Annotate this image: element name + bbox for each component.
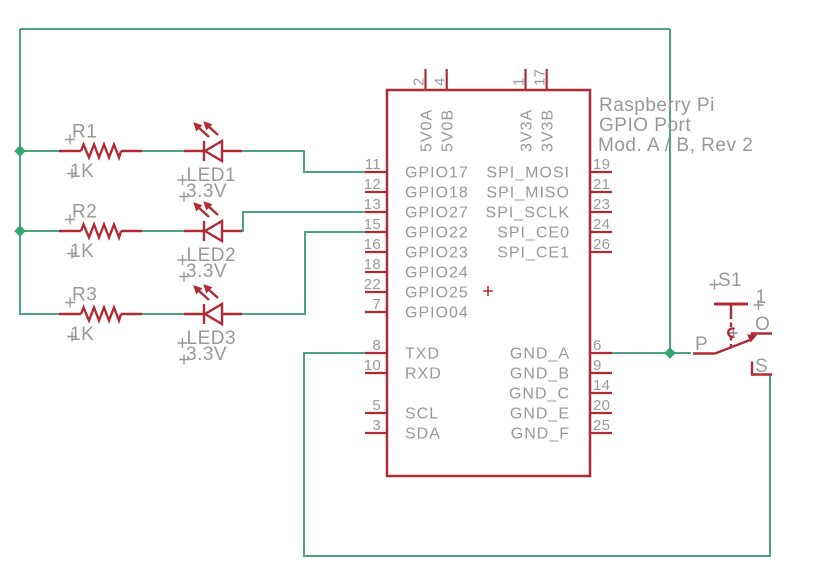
- svg-text:3V3B: 3V3B: [540, 109, 557, 152]
- svg-text:GPIO04: GPIO04: [405, 305, 469, 322]
- resistor R1 (1K): [59, 145, 142, 158]
- svg-text:R2: R2: [72, 202, 97, 223]
- op-amp-style IC U1: Raspberry Pi GPIO Port box: [387, 90, 590, 476]
- svg-text:13: 13: [364, 196, 381, 213]
- resistor R3 (1K): [59, 308, 142, 321]
- svg-text:R3: R3: [72, 285, 97, 306]
- pin 4 5V0B (top): [432, 69, 457, 152]
- pin 2 5V0A (top): [411, 69, 436, 152]
- IC origin cross: [483, 286, 493, 296]
- switch S1 (pushbutton): [693, 304, 772, 375]
- svg-text:GPIO27: GPIO27: [405, 205, 469, 222]
- svg-text:25: 25: [593, 417, 610, 434]
- svg-text:24: 24: [593, 216, 610, 233]
- svg-text:SPI_MISO: SPI_MISO: [486, 185, 570, 202]
- svg-text:8: 8: [372, 337, 381, 354]
- pin 6 GND_A (right): [510, 337, 612, 363]
- svg-text:16: 16: [364, 236, 381, 253]
- wire: GND_A pin 6 to switch P: [612, 352, 691, 354]
- value 1K of R3: [67, 324, 94, 345]
- pin 22 GPIO25 (left): [364, 276, 469, 302]
- pin 3 SDA (left): [365, 417, 441, 443]
- svg-text:4: 4: [432, 77, 449, 86]
- pin 26 SPI_CE1 (right): [497, 236, 612, 262]
- S1 pin P: [693, 352, 715, 354]
- wire: left rail to R2: [19, 230, 60, 232]
- LED LED2 (3.3V): [184, 202, 242, 241]
- svg-text:GND_B: GND_B: [510, 366, 570, 383]
- wire: right vertical drop to switch P net: [669, 29, 671, 353]
- S1 pin O: [752, 334, 772, 340]
- pin 23 SPI_SCLK (right): [486, 196, 612, 222]
- pin 10 RXD (left): [364, 357, 442, 383]
- svg-text:SCL: SCL: [405, 406, 439, 423]
- wire: R3 to LED3: [141, 313, 185, 315]
- svg-text:O: O: [755, 314, 770, 335]
- svg-text:3.3V: 3.3V: [186, 261, 227, 282]
- svg-text:SPI_CE0: SPI_CE0: [497, 225, 570, 242]
- svg-text:SDA: SDA: [405, 426, 441, 443]
- svg-text:SPI_CE1: SPI_CE1: [497, 245, 570, 262]
- svg-text:19: 19: [593, 156, 610, 173]
- S1 pin label 1: [754, 287, 767, 310]
- pin 1 3V3A (top): [511, 69, 536, 152]
- value 3.3V of LED1: [179, 181, 227, 202]
- svg-text:1K: 1K: [70, 161, 94, 182]
- junction: pin6 / switch node: [664, 347, 676, 359]
- S1 pin S: [752, 362, 772, 375]
- svg-text:GND_F: GND_F: [511, 426, 570, 443]
- label R3: [65, 285, 97, 308]
- pin 9 GND_B (right): [510, 357, 612, 383]
- svg-text:GPIO22: GPIO22: [405, 225, 469, 242]
- value 1K of R2: [67, 241, 94, 262]
- pin 11 GPIO17 (left): [365, 156, 469, 182]
- value 3.3V of LED2: [179, 261, 227, 282]
- label R2: [65, 202, 97, 225]
- wire: left rail to R1: [19, 150, 60, 152]
- wire: LED3 to pin 15 (GPIO22): [241, 232, 366, 314]
- pin 5 SCL (left): [365, 397, 439, 423]
- wire: LED2 to pin 13 (GPIO27): [241, 212, 366, 231]
- svg-text:23: 23: [593, 196, 610, 213]
- svg-text:18: 18: [364, 256, 381, 273]
- pin 14 GND_C (right): [509, 377, 612, 403]
- svg-text:3V3A: 3V3A: [519, 109, 536, 152]
- svg-text:12: 12: [364, 176, 381, 193]
- wire: TXD pin 8 down around bottom to switch S pin: [304, 353, 770, 556]
- pin 15 GPIO22 (left): [364, 216, 469, 242]
- svg-text:GND_A: GND_A: [510, 346, 570, 363]
- LED LED3 (3.3V): [184, 285, 242, 324]
- wire: left rail to R3: [19, 313, 60, 315]
- svg-text:10: 10: [364, 357, 381, 374]
- svg-text:9: 9: [593, 357, 602, 374]
- svg-text:26: 26: [593, 236, 610, 253]
- IC title text: [598, 95, 753, 156]
- svg-text:7: 7: [372, 296, 381, 313]
- svg-text:6: 6: [593, 337, 602, 354]
- svg-text:11: 11: [365, 156, 381, 173]
- pin 18 GPIO24 (left): [364, 256, 469, 282]
- pin 17 3V3B (top): [532, 69, 557, 152]
- svg-text:GPIO Port: GPIO Port: [599, 115, 691, 136]
- svg-text:1K: 1K: [70, 241, 94, 262]
- pin 8 TXD (left): [365, 337, 440, 363]
- svg-text:RXD: RXD: [405, 366, 442, 383]
- wire: R1 to LED1: [141, 150, 185, 152]
- S1 actuator button: [714, 303, 748, 306]
- svg-text:21: 21: [593, 176, 610, 193]
- svg-text:SPI_MOSI: SPI_MOSI: [486, 165, 570, 182]
- svg-text:3.3V: 3.3V: [186, 344, 227, 365]
- pin 21 SPI_MISO (right): [486, 176, 612, 202]
- svg-text:GPIO25: GPIO25: [405, 285, 469, 302]
- pin 20 GND_E (right): [510, 397, 612, 423]
- wire: left vertical rail: [19, 29, 21, 314]
- svg-text:15: 15: [364, 216, 381, 233]
- svg-text:3: 3: [372, 417, 381, 434]
- svg-text:1K: 1K: [70, 324, 94, 345]
- svg-text:2: 2: [411, 77, 428, 86]
- svg-text:GPIO23: GPIO23: [405, 245, 469, 262]
- svg-text:GPIO24: GPIO24: [405, 265, 469, 282]
- svg-text:GPIO18: GPIO18: [405, 185, 469, 202]
- pin 7 GPIO04 (left): [365, 296, 469, 322]
- wire: R2 to LED2: [141, 230, 185, 232]
- pin 12 GPIO18 (left): [364, 176, 469, 202]
- junction: left rail / R1 node: [14, 145, 26, 157]
- label R1: [65, 122, 97, 145]
- svg-text:TXD: TXD: [405, 346, 440, 363]
- pin 13 GPIO27 (left): [364, 196, 469, 222]
- svg-text:3.3V: 3.3V: [186, 181, 227, 202]
- svg-text:5V0B: 5V0B: [440, 109, 457, 152]
- svg-text:1: 1: [511, 77, 528, 86]
- svg-text:GPIO17: GPIO17: [405, 165, 469, 182]
- junction: left rail / R2 node: [14, 225, 26, 237]
- svg-text:5V0A: 5V0A: [419, 109, 436, 152]
- value 3.3V of LED3: [179, 344, 227, 365]
- svg-text:Raspberry Pi: Raspberry Pi: [599, 95, 715, 116]
- svg-text:20: 20: [593, 397, 610, 414]
- label LED2: [178, 245, 237, 266]
- svg-text:22: 22: [364, 276, 381, 293]
- LED LED1 (3.3V): [184, 122, 242, 161]
- svg-text:GND_E: GND_E: [510, 406, 570, 423]
- pin 19 SPI_MOSI (right): [486, 156, 612, 182]
- svg-text:R1: R1: [72, 122, 97, 143]
- svg-text:5: 5: [372, 397, 381, 414]
- wire: LED1 to pin 11 (GPIO17): [241, 151, 366, 172]
- svg-text:S: S: [755, 356, 768, 377]
- resistor R2 (1K): [59, 225, 142, 238]
- pin 16 GPIO23 (left): [364, 236, 469, 262]
- pin 24 SPI_CE0 (right): [497, 216, 612, 242]
- svg-text:SPI_SCLK: SPI_SCLK: [486, 205, 570, 222]
- value 1K of R1: [67, 161, 94, 182]
- svg-text:17: 17: [532, 69, 549, 86]
- svg-text:Mod. A / B, Rev 2: Mod. A / B, Rev 2: [598, 135, 753, 156]
- label S1: [710, 270, 743, 291]
- pin 25 GND_F (right): [511, 417, 612, 443]
- svg-text:14: 14: [593, 377, 610, 394]
- svg-text:GND_C: GND_C: [509, 386, 570, 403]
- svg-text:S1: S1: [718, 270, 742, 291]
- label LED1: [178, 165, 237, 186]
- svg-text:P: P: [695, 334, 708, 355]
- S1 lever with arrowhead: [715, 340, 750, 354]
- wire: top horizontal bus from left rail to switch column: [20, 28, 670, 30]
- label LED3: [178, 328, 237, 349]
